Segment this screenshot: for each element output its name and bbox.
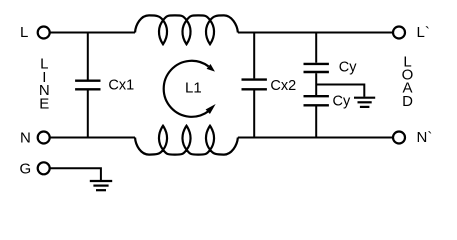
label LINE (vertical) (39, 55, 50, 112)
terminal N (38, 132, 50, 144)
svg-text:G: G (20, 160, 32, 177)
inductor bottom winding of common-mode choke (135, 126, 238, 155)
svg-text:L`: L` (417, 24, 430, 41)
svg-text:N: N (20, 129, 31, 146)
wire Cy midpoint to earth (316, 85, 364, 97)
capacitor Cx1 (75, 79, 100, 81)
wire Cy branch upper (315, 33, 317, 63)
L1 flux arc (164, 61, 209, 117)
inductor top winding of common-mode choke (135, 15, 238, 44)
label LOAD (vertical) (402, 53, 414, 110)
svg-text:L: L (20, 24, 28, 41)
wire Cx1 branch upper (87, 33, 89, 80)
wire choke bottom winding to N' terminal (238, 137, 393, 139)
wire G terminal to earth (50, 168, 101, 180)
svg-text:L1: L1 (185, 79, 202, 96)
ground at Cy midpoint (354, 97, 375, 99)
wire Cx1 branch lower (87, 91, 89, 138)
wire N terminal to choke bottom winding (50, 137, 135, 139)
svg-text:Cy: Cy (333, 94, 351, 110)
terminal L (38, 27, 50, 39)
wire L terminal to choke top winding (50, 32, 135, 34)
wire Cy branch lower (315, 107, 317, 138)
arrowhead bottom of L1 arc (206, 104, 216, 114)
terminal N' (393, 132, 405, 144)
terminal L' (393, 27, 405, 39)
wire choke top winding to L' terminal (238, 32, 393, 34)
svg-text:N`: N` (417, 129, 433, 146)
terminal G (38, 162, 50, 174)
svg-text:E: E (39, 96, 49, 113)
capacitor Cy top (304, 63, 329, 65)
svg-text:Cx2: Cx2 (270, 78, 296, 94)
capacitor Cy bottom (304, 95, 329, 97)
svg-text:Cy: Cy (339, 60, 357, 76)
ground at G (90, 180, 112, 182)
wire Cy branch middle (315, 73, 317, 95)
capacitor Cx2 (242, 78, 267, 80)
wire Cx2 branch lower (253, 91, 255, 138)
svg-text:Cx1: Cx1 (108, 78, 134, 94)
wire Cx2 branch upper (253, 33, 255, 79)
arrowhead top of L1 arc (207, 64, 215, 72)
svg-text:D: D (402, 93, 413, 110)
